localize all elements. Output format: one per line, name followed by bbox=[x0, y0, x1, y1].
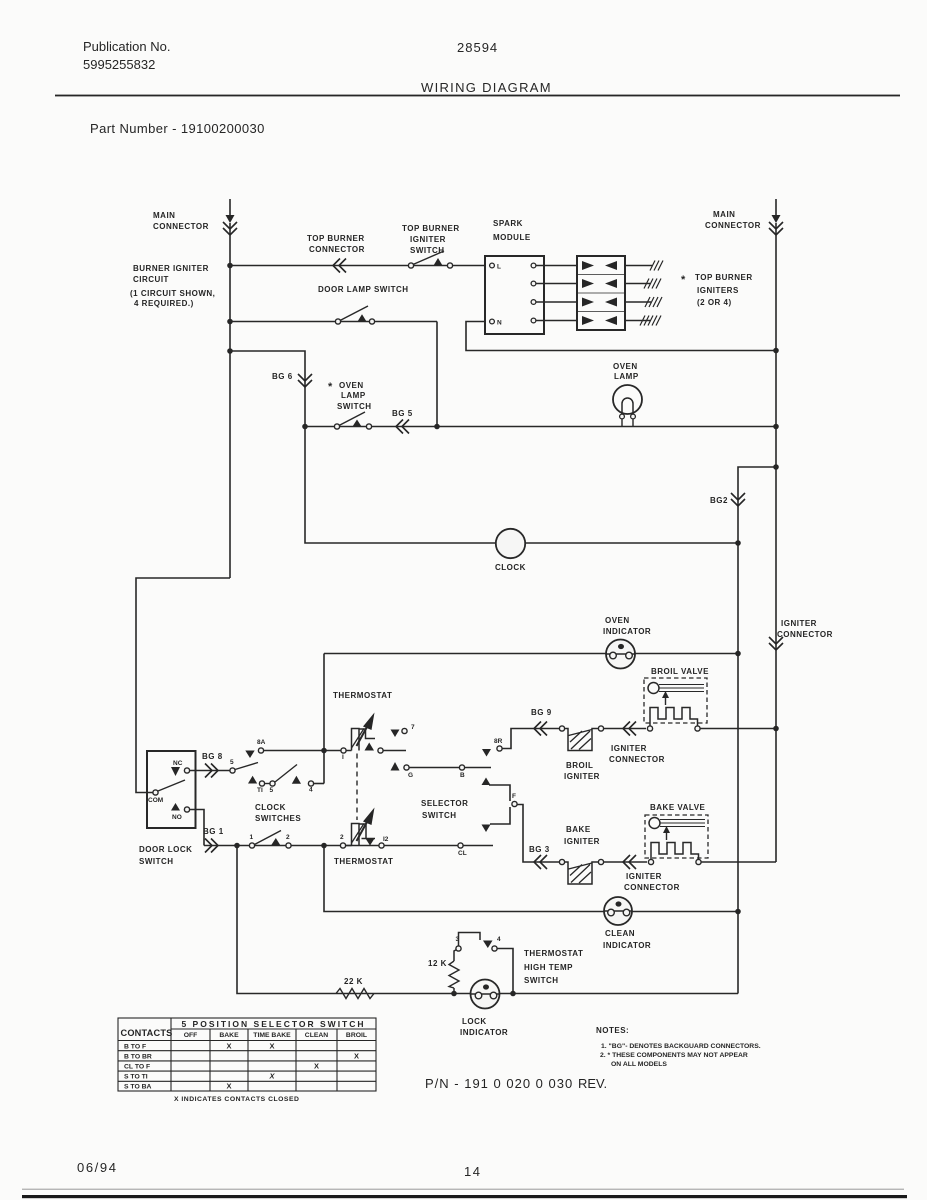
wire: bottom row to selector bbox=[204, 845, 493, 847]
pin N bbox=[490, 319, 495, 324]
svg-text:CONNECTOR: CONNECTOR bbox=[309, 245, 365, 254]
svg-text:BURNER IGNITER: BURNER IGNITER bbox=[133, 264, 209, 273]
notes bbox=[596, 1026, 761, 1068]
svg-text:(2 OR 4): (2 OR 4) bbox=[697, 298, 732, 307]
svg-text:X: X bbox=[269, 1042, 274, 1051]
bake igniter row bbox=[559, 859, 564, 864]
igniter tip row2 bbox=[644, 279, 661, 289]
svg-text:P/N - 191 0 020 0 030: P/N - 191 0 020 0 030 bbox=[425, 1076, 573, 1091]
svg-text:CL: CL bbox=[458, 850, 467, 857]
svg-text:X INDICATES CONTACTS CLOSED: X INDICATES CONTACTS CLOSED bbox=[174, 1096, 299, 1103]
svg-text:X: X bbox=[226, 1042, 231, 1051]
wire: right main vertical bbox=[775, 223, 777, 862]
svg-text:BG 9: BG 9 bbox=[531, 708, 552, 717]
spark gap arrows row4 bbox=[582, 316, 594, 325]
svg-text:NOTES:: NOTES: bbox=[596, 1026, 629, 1035]
svg-text:B: B bbox=[460, 772, 465, 779]
bottom thick rule bbox=[22, 1195, 907, 1198]
wire: NC to clock switches (BG 8) bbox=[190, 770, 230, 772]
svg-text:L: L bbox=[497, 264, 501, 271]
svg-text:CONNECTOR: CONNECTOR bbox=[153, 222, 209, 231]
svg-text:CONNECTOR: CONNECTOR bbox=[624, 883, 680, 892]
svg-text:THERMOSTAT: THERMOSTAT bbox=[334, 857, 393, 866]
svg-text:22 K: 22 K bbox=[344, 977, 363, 986]
svg-text:7: 7 bbox=[411, 724, 415, 731]
wire: lock indicator row bbox=[237, 846, 738, 994]
svg-text:TI: TI bbox=[257, 787, 263, 794]
wire: oven lamp row bbox=[305, 426, 776, 428]
svg-text:BG2: BG2 bbox=[710, 496, 728, 505]
node: burner igniter wire tap bbox=[227, 263, 233, 269]
svg-text:IGNITER: IGNITER bbox=[611, 744, 647, 753]
label burner igniter circuit bbox=[130, 264, 215, 308]
igniter tip row1 bbox=[650, 261, 663, 271]
svg-text:5: 5 bbox=[230, 759, 234, 766]
svg-text:SPARK: SPARK bbox=[493, 219, 523, 228]
svg-text:WIRING DIAGRAM: WIRING DIAGRAM bbox=[421, 80, 552, 95]
svg-text:8R: 8R bbox=[494, 738, 503, 745]
svg-text:4: 4 bbox=[309, 787, 313, 794]
svg-text:*: * bbox=[681, 274, 686, 286]
door lock switch S1 bbox=[147, 751, 196, 828]
svg-text:1. "BG"- DENOTES BACKGUARD CON: 1. "BG"- DENOTES BACKGUARD CONNECTORS. bbox=[601, 1043, 761, 1050]
svg-text:SWITCH: SWITCH bbox=[422, 811, 457, 820]
svg-text:X: X bbox=[314, 1062, 319, 1071]
svg-text:CIRCUIT: CIRCUIT bbox=[133, 275, 169, 284]
igniter connector (bake) bbox=[604, 861, 648, 863]
igniter connector (broil) bbox=[604, 728, 647, 730]
svg-text:Part Number - 19100200030: Part Number - 19100200030 bbox=[90, 121, 265, 136]
clock switch contact 5 bbox=[230, 768, 235, 773]
clean indicator lamp bbox=[604, 897, 632, 925]
svg-text:CONNECTOR: CONNECTOR bbox=[777, 630, 833, 639]
svg-text:IGNITERS: IGNITERS bbox=[697, 286, 739, 295]
svg-text:5 POSITION SELECTOR SWITCH: 5 POSITION SELECTOR SWITCH bbox=[181, 1019, 365, 1029]
svg-text:2: 2 bbox=[286, 834, 290, 841]
svg-text:MAIN: MAIN bbox=[713, 210, 735, 219]
svg-text:LAMP: LAMP bbox=[614, 372, 639, 381]
svg-text:CONTACTS: CONTACTS bbox=[121, 1028, 173, 1038]
svg-text:X: X bbox=[354, 1052, 359, 1061]
thermostat high temp switch bbox=[456, 946, 461, 951]
header rule bbox=[55, 95, 900, 97]
svg-text:INDICATOR: INDICATOR bbox=[603, 941, 651, 950]
svg-text:B TO BR: B TO BR bbox=[124, 1054, 152, 1061]
svg-text:SWITCH: SWITCH bbox=[524, 976, 559, 985]
svg-text:4: 4 bbox=[497, 936, 501, 943]
svg-text:BROIL VALVE: BROIL VALVE bbox=[651, 667, 709, 676]
svg-text:DOOR LOCK: DOOR LOCK bbox=[139, 845, 192, 854]
svg-text:SWITCH: SWITCH bbox=[337, 402, 372, 411]
svg-text:1: 1 bbox=[250, 834, 254, 841]
spark gap arrows row2 bbox=[582, 279, 594, 288]
oven lamp switch bbox=[328, 381, 372, 411]
spark gap block bbox=[577, 256, 625, 330]
svg-text:COM: COM bbox=[148, 797, 163, 804]
svg-text:OFF: OFF bbox=[184, 1032, 198, 1039]
svg-text:SWITCHES: SWITCHES bbox=[255, 814, 301, 823]
svg-text:14: 14 bbox=[464, 1164, 481, 1179]
svg-text:NO: NO bbox=[172, 814, 182, 821]
svg-text:SWITCH: SWITCH bbox=[139, 857, 174, 866]
svg-text:CLOCK: CLOCK bbox=[495, 563, 526, 572]
svg-text:SELECTOR: SELECTOR bbox=[421, 799, 468, 808]
svg-text:REV.: REV. bbox=[578, 1076, 607, 1091]
svg-text:(1 CIRCUIT SHOWN,: (1 CIRCUIT SHOWN, bbox=[130, 289, 215, 298]
svg-text:S TO TI: S TO TI bbox=[124, 1074, 148, 1081]
svg-text:28594: 28594 bbox=[457, 40, 498, 55]
pin L bbox=[490, 263, 495, 268]
svg-text:BAKE VALVE: BAKE VALVE bbox=[650, 803, 706, 812]
svg-text:CLOCK: CLOCK bbox=[255, 803, 286, 812]
wires: spark module outputs bbox=[536, 266, 577, 321]
spark gap arrows row3 bbox=[582, 298, 594, 307]
svg-text:NC: NC bbox=[173, 760, 183, 767]
svg-text:I2: I2 bbox=[383, 836, 389, 843]
bottom thin rule bbox=[22, 1189, 904, 1190]
svg-text:CL TO F: CL TO F bbox=[124, 1064, 150, 1071]
svg-text:IGNITER: IGNITER bbox=[410, 235, 446, 244]
svg-text:DOOR LAMP SWITCH: DOOR LAMP SWITCH bbox=[318, 285, 409, 294]
selector contact F bracket bbox=[482, 778, 491, 786]
wire: left vertical jog down to door lock switch bbox=[136, 578, 230, 793]
wire: bake valve to right vertical bbox=[701, 861, 776, 863]
svg-text:TIME BAKE: TIME BAKE bbox=[253, 1032, 291, 1039]
svg-text:X: X bbox=[226, 1082, 231, 1091]
svg-text:BROIL: BROIL bbox=[346, 1032, 367, 1039]
svg-text:MODULE: MODULE bbox=[493, 233, 531, 242]
wire: clock row bbox=[305, 427, 738, 544]
svg-text:5995255832: 5995255832 bbox=[83, 57, 155, 72]
node: door lamp joins oven lamp row bbox=[434, 424, 440, 430]
wire: thermostat upper to selector bbox=[383, 750, 406, 752]
svg-text:F: F bbox=[512, 793, 516, 800]
svg-text:BG 3: BG 3 bbox=[529, 845, 550, 854]
svg-text:8A: 8A bbox=[257, 739, 266, 746]
svg-text:I: I bbox=[342, 754, 344, 761]
wires: igniter leads bbox=[625, 266, 652, 321]
selector switch contact table bbox=[118, 1018, 376, 1091]
svg-text:N: N bbox=[497, 320, 502, 327]
top burner igniter switch bbox=[402, 224, 460, 255]
wire: oven indicator row bbox=[324, 654, 738, 784]
clock switch contacts 1-2 bbox=[249, 843, 254, 848]
svg-text:TOP BURNER: TOP BURNER bbox=[402, 224, 460, 233]
svg-text:5: 5 bbox=[270, 787, 274, 794]
igniter tip row3 bbox=[645, 297, 662, 307]
svg-text:THERMOSTAT: THERMOSTAT bbox=[524, 949, 583, 958]
clock switch contact 4 bbox=[292, 776, 301, 784]
svg-text:IGNITER: IGNITER bbox=[781, 619, 817, 628]
svg-text:TOP BURNER: TOP BURNER bbox=[695, 273, 753, 282]
wire: clean indicator row bbox=[324, 846, 738, 912]
svg-text:IGNITER: IGNITER bbox=[626, 872, 662, 881]
dashed link between thermostat contacts bbox=[356, 754, 358, 821]
svg-text:OVEN: OVEN bbox=[339, 381, 364, 390]
svg-text:CONNECTOR: CONNECTOR bbox=[705, 221, 761, 230]
wire: 8A row to thermostat bbox=[264, 750, 342, 752]
svg-text:CLEAN: CLEAN bbox=[605, 929, 635, 938]
svg-text:06/94: 06/94 bbox=[77, 1160, 118, 1175]
selector contact CL bbox=[458, 843, 463, 848]
svg-text:IGNITER: IGNITER bbox=[564, 837, 600, 846]
wire: NO to BG 1 row bbox=[190, 810, 205, 846]
label top burner igniters bbox=[681, 273, 753, 307]
wire: right feeder drop to BG2 bbox=[773, 464, 779, 470]
svg-text:BG 5: BG 5 bbox=[392, 409, 413, 418]
svg-text:BG 8: BG 8 bbox=[202, 752, 223, 761]
clock motor bbox=[496, 529, 525, 558]
svg-text:LOCK: LOCK bbox=[462, 1017, 487, 1026]
svg-text:2: 2 bbox=[340, 834, 344, 841]
svg-text:HIGH TEMP: HIGH TEMP bbox=[524, 963, 573, 972]
spark gap arrows row1 bbox=[582, 261, 594, 270]
svg-text:OVEN: OVEN bbox=[613, 362, 638, 371]
svg-text:BG 1: BG 1 bbox=[203, 827, 224, 836]
broil igniter row wire bbox=[559, 726, 564, 731]
svg-text:TOP BURNER: TOP BURNER bbox=[307, 234, 365, 243]
svg-text:OVEN: OVEN bbox=[605, 616, 630, 625]
svg-text:CONNECTOR: CONNECTOR bbox=[609, 755, 665, 764]
svg-text:4 REQUIRED.): 4 REQUIRED.) bbox=[134, 299, 194, 308]
svg-text:INDICATOR: INDICATOR bbox=[460, 1028, 508, 1037]
svg-text:Publication No.: Publication No. bbox=[83, 39, 170, 54]
svg-text:B TO F: B TO F bbox=[124, 1044, 146, 1051]
spark module output pins bbox=[531, 263, 536, 268]
svg-text:ON ALL MODELS: ON ALL MODELS bbox=[611, 1061, 667, 1068]
wire: F to BG 3 bbox=[517, 805, 562, 863]
wire: burner igniter circuit to spark module L bbox=[230, 265, 485, 267]
lock indicator lamp bbox=[471, 980, 500, 1009]
svg-text:X: X bbox=[268, 1072, 275, 1081]
svg-text:BROIL: BROIL bbox=[566, 761, 593, 770]
broil igniter element bbox=[565, 729, 599, 751]
wire: spark module N return bbox=[466, 322, 776, 351]
wire: left main vertical bbox=[229, 223, 231, 578]
node: oven lamp row meets right vertical bbox=[773, 424, 779, 430]
svg-text:THERMOSTAT: THERMOSTAT bbox=[333, 691, 392, 700]
wire: broil valve to right vertical bbox=[700, 728, 776, 730]
svg-text:2. * THESE COMPONENTS MAY NOT: 2. * THESE COMPONENTS MAY NOT APPEAR bbox=[600, 1052, 748, 1059]
svg-text:G: G bbox=[408, 772, 413, 779]
clock switch contacts TI 5 bbox=[248, 776, 257, 784]
svg-text:MAIN: MAIN bbox=[153, 211, 175, 220]
svg-text:LAMP: LAMP bbox=[341, 391, 366, 400]
svg-text:CLEAN: CLEAN bbox=[305, 1032, 329, 1039]
svg-text:BG 6: BG 6 bbox=[272, 372, 293, 381]
svg-text:BAKE: BAKE bbox=[566, 825, 591, 834]
bake igniter element bbox=[565, 862, 599, 884]
selector contact 7 bbox=[391, 730, 400, 738]
svg-text:INDICATOR: INDICATOR bbox=[603, 627, 651, 636]
svg-text:12 K: 12 K bbox=[428, 959, 447, 968]
svg-text:*: * bbox=[328, 381, 333, 393]
selector contacts G to B bbox=[391, 762, 400, 771]
svg-text:S TO BA: S TO BA bbox=[124, 1084, 152, 1091]
wire: oven lamp branch from left vertical bbox=[227, 348, 233, 354]
igniter tip row4 bbox=[640, 316, 661, 326]
svg-text:IGNITER: IGNITER bbox=[564, 772, 600, 781]
svg-text:BAKE: BAKE bbox=[219, 1032, 239, 1039]
